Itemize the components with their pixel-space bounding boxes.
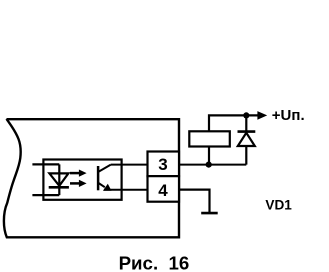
svg-text:4: 4 (158, 181, 168, 200)
phototransistor (98, 165, 111, 191)
wire pin3 to diode bottom (179, 164, 246, 166)
junction node at diode top (243, 112, 249, 118)
wire pin4 to ground (179, 190, 210, 213)
svg-text:+Uп.: +Uп. (272, 107, 305, 124)
svg-text:3: 3 (158, 155, 167, 174)
light arrows (70, 170, 87, 188)
relay coil K1 (189, 131, 230, 146)
pin 3 (148, 152, 180, 177)
+Up supply arrow (258, 112, 266, 119)
svg-text:Рис. 16: Рис. 16 (119, 252, 190, 272)
wire emitter to pin 4 (104, 189, 148, 191)
diode VD1 (238, 115, 256, 164)
svg-text:VD1: VD1 (265, 197, 292, 212)
optocoupler box (43, 160, 121, 200)
wire LED anode (32, 163, 59, 165)
wire relay bottom stub (208, 147, 210, 165)
wire relay top stub to +U rail (209, 115, 259, 131)
junction node at relay branch (206, 162, 212, 168)
pin 4 (148, 176, 180, 202)
LED (emitting diode) (49, 164, 69, 195)
wire collector to pin 3 (111, 164, 148, 166)
device box (partial outline with torn left edge) (4, 119, 179, 237)
ground bar (201, 212, 218, 215)
wire LED cathode (32, 194, 59, 196)
